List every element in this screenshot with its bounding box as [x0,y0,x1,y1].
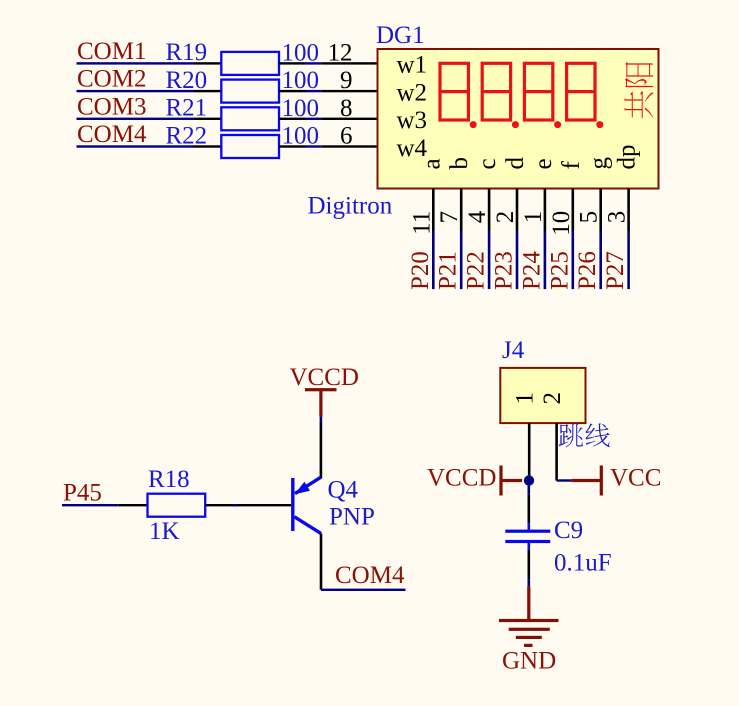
wire junction to C9 [528,486,531,495]
svg-text:COM3: COM3 [77,93,146,120]
wire net P20 [432,231,435,289]
DG1 pin g (number 5) [599,189,602,232]
svg-text:9: 9 [340,67,353,94]
Q4 emitter pin [320,423,323,478]
wire net P23 [516,231,519,289]
digitron display DG1 body [378,49,659,189]
decimal point 2 [512,121,519,128]
svg-text:8: 8 [340,95,353,122]
svg-text:2: 2 [492,211,519,224]
svg-text:1K: 1K [149,518,180,545]
wire to DG1 [306,90,322,92]
svg-text:1: 1 [520,211,547,224]
power symbol VCCD (left) [427,465,522,496]
svg-text:f: f [558,161,585,170]
svg-text:w2: w2 [397,79,428,106]
DG1 pin f (number 10) [572,189,575,232]
wire net P24 [544,231,547,289]
DG1 pin 6 [322,145,378,147]
svg-text:J4: J4 [502,337,525,364]
wire net P22 [488,231,491,289]
svg-text:w4: w4 [397,135,428,162]
wire net P26 [599,231,602,289]
svg-text:COM4: COM4 [77,121,147,148]
svg-text:P23: P23 [491,251,518,290]
resistor R22 left pin [194,145,221,147]
J4 pin 1 [528,423,531,475]
svg-text:e: e [530,158,557,169]
wire net P21 [460,231,463,289]
wire VCC net [557,479,572,481]
svg-text:dp: dp [614,145,641,170]
decimal point 3 [554,121,561,128]
DG1 pin 12 [322,62,378,64]
comment 跳线 (jumper) [559,423,610,447]
svg-text:P27: P27 [602,251,629,290]
connector J4 body [500,368,585,423]
resistor R19 right pin [279,62,306,64]
resistor R21 left pin [194,118,221,120]
wire VCCD to Q4 emitter [320,417,323,423]
resistor R22 right pin [279,145,306,147]
svg-text:P20: P20 [407,251,434,290]
7-segment digit 3 [524,63,552,120]
svg-text:P21: P21 [435,251,462,290]
wire C9 to GND [528,550,531,579]
svg-text:4: 4 [464,210,491,223]
wire COM3 net [77,118,195,120]
resistor R20 left pin [194,90,221,92]
resistor R20 body [221,80,279,103]
svg-text:P24: P24 [518,251,545,290]
resistor R21 right pin [279,118,306,120]
svg-text:c: c [474,158,501,169]
decimal point 4 [596,121,603,128]
svg-text:VCCD: VCCD [427,465,496,492]
svg-text:Q4: Q4 [328,477,359,504]
wire COM2 net [77,90,195,92]
svg-text:C9: C9 [554,517,583,544]
DG1 pin 8 [322,118,378,120]
svg-text:R18: R18 [148,466,190,493]
svg-text:COM1: COM1 [77,38,146,65]
svg-text:COM4: COM4 [335,562,405,589]
resistor R19 left pin [194,62,221,64]
DG1 pin dp (number 3) [627,189,630,232]
wire COM4 net [321,589,406,591]
DG1 pin b (number 7) [460,189,463,232]
svg-text:VCC: VCC [610,465,661,492]
svg-text:R20: R20 [166,67,208,94]
J4 pin 2 [555,423,558,480]
wire COM4 net [77,145,195,147]
resistor R19 body [221,52,279,75]
svg-text:1: 1 [512,392,539,405]
svg-text:g: g [586,157,613,170]
svg-text:R22: R22 [166,122,208,149]
svg-text:GND: GND [502,648,556,675]
wire net P27 [627,231,630,289]
wire nub base [233,504,237,506]
svg-text:P22: P22 [463,251,490,290]
resistor R18 right pin / base wire [205,504,291,506]
svg-text:P25: P25 [546,251,573,290]
svg-text:P26: P26 [574,251,601,290]
svg-text:11: 11 [408,211,435,235]
resistor R18 left pin [118,504,147,506]
svg-text:0.1uF: 0.1uF [554,550,612,577]
ground symbol GND [499,586,559,647]
svg-text:w3: w3 [397,107,428,134]
resistor R20 right pin [279,90,306,92]
power symbol VCC [571,465,661,496]
7-segment digit 1 [440,63,468,120]
svg-text:w1: w1 [397,52,428,79]
DG1 pin e (number 1) [544,189,547,232]
capacitor C9 [505,523,550,550]
7-segment digit 4 [567,63,595,120]
svg-text:7: 7 [436,211,463,224]
svg-text:R21: R21 [166,95,208,122]
svg-text:COM2: COM2 [77,66,146,93]
power symbol VCCD (top) [290,364,359,417]
svg-text:d: d [502,157,529,170]
wire to DG1 [306,118,322,120]
Q4 collector pin [320,534,323,590]
svg-text:VCCD: VCCD [290,364,359,391]
Q4 emitter arrow [295,482,311,495]
DG1 pin 9 [322,90,378,92]
svg-text:R19: R19 [166,39,208,66]
wire net P25 [572,231,575,289]
7-segment digit 2 [482,63,510,120]
svg-text:b: b [446,157,473,170]
DG1 pin c (number 4) [488,189,491,232]
resistor R22 body [221,135,279,158]
svg-text:5: 5 [576,211,603,224]
wire to DG1 [306,145,322,147]
svg-text:Digitron: Digitron [308,193,393,220]
DG1 pin d (number 2) [516,189,519,232]
label 共阳 (common anode) [624,62,653,118]
wire COM1 net [77,62,195,64]
resistor R18 body [148,494,206,517]
resistor R21 body [221,107,279,130]
wire P45 net [62,504,118,506]
svg-text:DG1: DG1 [376,22,425,49]
svg-text:6: 6 [340,123,353,150]
svg-text:a: a [418,158,445,169]
svg-text:12: 12 [328,39,353,66]
decimal point 1 [470,121,477,128]
transistor Q4 [293,477,321,533]
svg-text:3: 3 [604,211,631,224]
svg-text:10: 10 [548,211,575,236]
junction dot [524,475,534,485]
svg-text:PNP: PNP [329,504,375,531]
svg-text:P45: P45 [63,480,102,507]
DG1 pin a (number 11) [432,189,435,232]
wire to DG1 [306,62,322,64]
svg-text:2: 2 [539,392,566,405]
